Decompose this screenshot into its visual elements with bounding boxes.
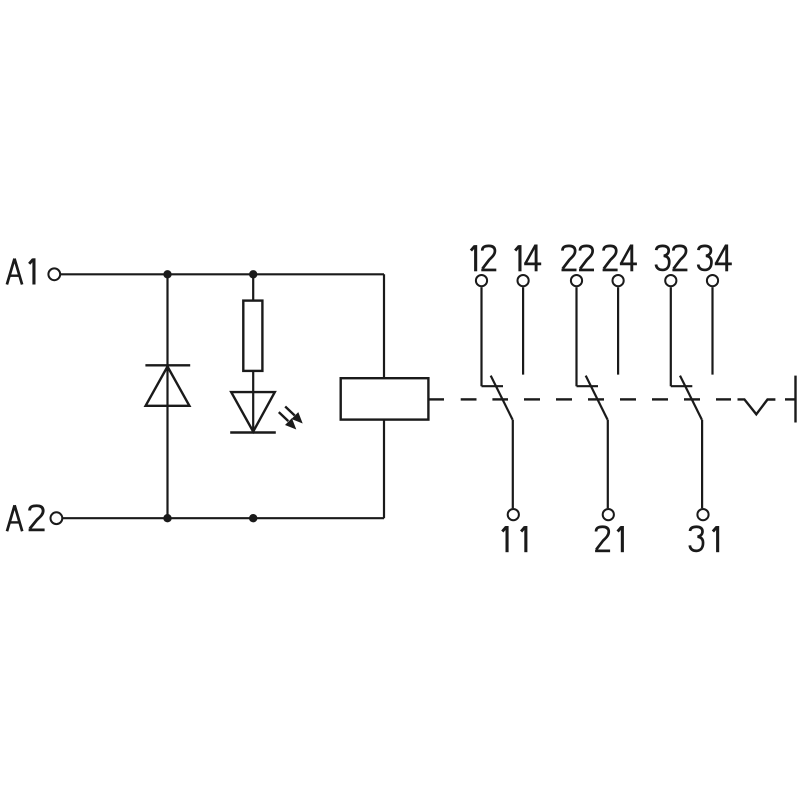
linkage end bar	[794, 376, 796, 423]
wire resistor to LED	[252, 371, 254, 433]
contact 1: terminal 11 circle	[508, 509, 519, 520]
contact 1: terminal 12 label	[471, 245, 496, 271]
contact 3: terminal 32 label	[656, 246, 687, 270]
terminal label A1	[7, 258, 34, 284]
contact 3: terminal 31 label	[690, 526, 718, 552]
contact 3: terminal 34 circle	[707, 275, 718, 286]
LED D1	[230, 392, 276, 432]
contact 3: lever	[680, 376, 702, 420]
contact 2: terminal 21 label	[595, 526, 622, 552]
contact 2: terminal 24 circle	[613, 275, 624, 286]
contact 2: NC line from 22	[575, 287, 577, 386]
contact 1: terminal 11 label	[502, 526, 526, 552]
contact 1: terminal 14 label	[515, 245, 541, 272]
diode V1 suppressor	[145, 365, 190, 406]
relay coil K1	[341, 378, 429, 419]
contact 1: common line to 11	[512, 420, 514, 509]
contact 3: terminal 34 label	[698, 245, 732, 272]
wire A1 horizontal	[61, 273, 384, 275]
contact 3: NC line from 32	[670, 287, 672, 386]
contact 3: NC bar	[671, 385, 693, 387]
terminal A1 circle	[48, 268, 60, 280]
terminal label A2	[7, 505, 45, 531]
wire diode branch vertical	[166, 274, 168, 518]
contact 1: NO line from 14	[522, 287, 524, 374]
contact 2: terminal 21 circle	[603, 509, 614, 520]
wire right vertical to coil top	[383, 274, 385, 378]
wire A2 horizontal	[63, 517, 384, 519]
contact 2: common line to 21	[607, 420, 609, 509]
contact 3: NO line from 34	[711, 287, 713, 374]
contact 3: terminal 31 circle	[697, 509, 708, 520]
contact 1: NC line from 12	[480, 287, 482, 386]
contact 2: terminal 22 label	[562, 246, 595, 270]
contact 1: terminal 12 circle	[476, 275, 487, 286]
LED light arrow upper	[285, 407, 303, 424]
contact 1: terminal 14 circle	[518, 275, 529, 286]
terminal A2 circle	[51, 512, 63, 524]
wire resistor branch top	[252, 274, 254, 300]
contact 3: terminal 32 circle	[665, 275, 676, 286]
contact 2: terminal 22 circle	[571, 275, 582, 286]
node junction dot top left	[163, 270, 171, 278]
node junction dot bottom left	[163, 514, 171, 522]
node junction dot top right	[249, 270, 257, 278]
contact 2: lever	[586, 376, 608, 420]
contact 3: common line to 31	[701, 420, 703, 509]
contact 2: NO line from 24	[617, 287, 619, 374]
node junction dot bottom right	[249, 514, 257, 522]
wire coil bottom to A2	[383, 420, 385, 519]
LED light arrow lower	[279, 412, 297, 429]
contact 2: terminal 24 label	[603, 245, 637, 272]
mechanical linkage dashed line	[429, 399, 795, 414]
contact 1: lever	[491, 376, 513, 420]
contact 1: NC bar	[482, 385, 504, 387]
contact 2: NC bar	[577, 385, 599, 387]
resistor R1	[243, 301, 262, 371]
